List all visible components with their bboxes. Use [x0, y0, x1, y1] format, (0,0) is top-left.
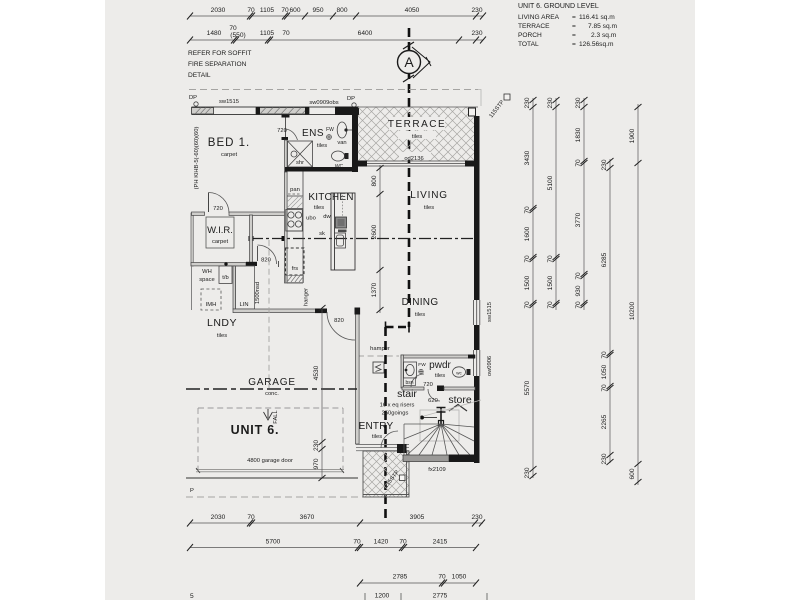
svg-text:stair: stair	[397, 388, 417, 400]
apron dashed line	[186, 496, 363, 498]
section line A (vertical, upper run)	[408, 28, 411, 327]
top wall black corner at ens	[335, 107, 359, 116]
svg-text:store: store	[448, 394, 472, 406]
entry door swing	[381, 431, 398, 448]
store arrow	[449, 405, 467, 412]
corridor wall end bar	[246, 262, 257, 266]
svg-text:70: 70	[438, 574, 446, 581]
svg-text:230: 230	[601, 159, 608, 170]
svg-text:4050: 4050	[405, 7, 420, 14]
store door swing	[428, 389, 440, 401]
svg-text:1200: 1200	[375, 593, 390, 600]
svg-text:DETAIL: DETAIL	[188, 72, 211, 79]
svg-text:10200: 10200	[629, 302, 636, 321]
svg-text:carpet: carpet	[221, 152, 238, 158]
svg-text:2030: 2030	[211, 7, 226, 14]
svg-text:2415: 2415	[433, 539, 448, 546]
garage door jambs	[196, 468, 344, 473]
imh dashed box	[201, 289, 221, 310]
svg-text:1105: 1105	[260, 7, 275, 14]
kitchen west wall / bench column	[285, 172, 288, 283]
svg-text:ENTRY: ENTRY	[359, 421, 394, 432]
svg-text:shr: shr	[296, 160, 304, 166]
store north wall	[444, 387, 475, 390]
svg-text:70: 70	[281, 7, 289, 14]
svg-text:970: 970	[313, 458, 320, 469]
island bench	[331, 193, 355, 270]
svg-text:tiles: tiles	[424, 205, 434, 211]
svg-text:frs: frs	[292, 266, 299, 272]
tub t/b	[219, 266, 232, 284]
dining window sw1515	[474, 300, 480, 325]
svg-text:carpet: carpet	[212, 239, 229, 245]
svg-text:t/b: t/b	[222, 275, 228, 281]
svg-text:230: 230	[471, 514, 482, 521]
svg-text:=: =	[572, 41, 576, 48]
pwdr north wall	[401, 355, 475, 358]
svg-text:4800 garage door: 4800 garage door	[247, 458, 293, 464]
svg-text:5: 5	[190, 593, 194, 600]
svg-text:230: 230	[313, 440, 320, 451]
shower shr	[288, 141, 313, 167]
cooktop burners	[286, 210, 303, 232]
svg-text:230: 230	[471, 30, 482, 37]
svg-text:70: 70	[282, 30, 290, 37]
svg-text:REFER FOR SOFFIT: REFER FOR SOFFIT	[188, 50, 251, 57]
ens door swing	[286, 129, 298, 140]
svg-text:WH: WH	[202, 269, 212, 275]
svg-text:70: 70	[399, 539, 407, 546]
svg-text:ubo: ubo	[306, 216, 316, 222]
svg-text:930: 930	[575, 285, 582, 296]
corridor door 820 swing	[258, 245, 277, 264]
stair south wall black	[449, 455, 476, 463]
right dim column D	[607, 158, 614, 465]
svg-text:PORCH: PORCH	[518, 32, 542, 39]
island dotted line	[342, 195, 344, 216]
svg-text:TOTAL: TOTAL	[518, 41, 539, 48]
svg-text:tiles: tiles	[217, 333, 227, 339]
right dim column A	[530, 97, 537, 479]
section marker circle A	[398, 42, 432, 82]
bench hatch below fridge	[286, 276, 304, 283]
stair handrail dot	[420, 416, 424, 420]
top dimension row 1 labels	[211, 7, 483, 14]
svg-text:pan: pan	[290, 187, 300, 193]
garage slab edge	[186, 477, 358, 479]
stair upper flight outline	[420, 410, 459, 441]
svg-text:FW: FW	[418, 362, 426, 368]
terrace south wall / od2136 door	[358, 161, 478, 166]
svg-text:TERRACE: TERRACE	[388, 119, 446, 130]
top exterior wall	[192, 107, 360, 115]
svg-text:70: 70	[524, 206, 531, 214]
terrace right post	[469, 108, 476, 116]
wir door swing	[209, 193, 230, 214]
svg-text:tiles: tiles	[317, 143, 327, 149]
svg-text:800: 800	[371, 175, 378, 186]
unit 6 ground level area legend	[518, 3, 617, 48]
wall bed1 south (right of door)	[229, 212, 285, 215]
fridge space frs dashed	[286, 248, 305, 275]
step label 115STP top right	[504, 94, 510, 100]
svg-text:1480: 1480	[207, 30, 222, 37]
svg-text:(PH KlHB-5(-60)(60)(60): (PH KlHB-5(-60)(60)(60)	[194, 127, 200, 190]
svg-text:LIVING AREA: LIVING AREA	[518, 14, 560, 21]
svg-text:UNIT 6.: UNIT 6.	[231, 423, 280, 437]
bottom dimension row 3	[357, 580, 479, 587]
DP downpipe left	[189, 95, 198, 106]
terrace floor hatch	[358, 107, 474, 161]
svg-text:250goings: 250goings	[382, 411, 409, 417]
top dimension row 1	[187, 13, 486, 20]
svg-text:DP: DP	[189, 95, 197, 101]
svg-text:70: 70	[229, 25, 237, 32]
lndy south wall	[233, 309, 316, 313]
svg-text:FALL: FALL	[273, 409, 279, 423]
top dimension row 2	[187, 37, 486, 44]
terrace top edge	[359, 106, 478, 108]
garage centreline	[186, 388, 357, 390]
svg-text:P: P	[190, 488, 194, 494]
dishwasher box	[336, 217, 347, 228]
hanger rail dashed	[268, 240, 270, 388]
right dim column C	[581, 97, 588, 310]
svg-text:sw1515: sw1515	[487, 302, 493, 322]
svg-text:pwdr: pwdr	[429, 360, 451, 371]
svg-text:70: 70	[247, 7, 255, 14]
svg-text:70: 70	[547, 301, 554, 309]
svg-text:720: 720	[277, 128, 287, 134]
right dim column E	[635, 104, 642, 485]
svg-text:230: 230	[524, 467, 531, 478]
svg-text:1050: 1050	[601, 364, 608, 379]
datum dash-dot line through kitchen	[251, 238, 474, 240]
svg-text:3670: 3670	[300, 514, 315, 521]
svg-text:70: 70	[247, 514, 255, 521]
top wall masonry pier left	[192, 108, 214, 115]
svg-text:5700: 5700	[266, 539, 281, 546]
door junction dot	[224, 262, 227, 265]
garage door sill	[196, 470, 344, 472]
svg-text:=: =	[572, 32, 576, 39]
svg-text:UNIT 6. GROUND LEVEL: UNIT 6. GROUND LEVEL	[518, 3, 599, 10]
svg-text:600: 600	[629, 468, 636, 479]
lndy south wall black end	[315, 309, 327, 314]
svg-text:=: =	[572, 14, 576, 21]
svg-text:1900: 1900	[629, 128, 636, 143]
svg-text:tiles: tiles	[435, 373, 445, 379]
svg-text:1830: 1830	[575, 127, 582, 142]
svg-text:720: 720	[423, 382, 433, 388]
DP downpipe at ens	[347, 96, 356, 107]
porch step label 115STP	[400, 475, 406, 481]
stair winder treads	[404, 424, 474, 455]
right exterior wall upper (terrace to dining window)	[474, 116, 480, 300]
section line jog horizontal	[386, 326, 410, 329]
pwdr wc	[453, 367, 466, 377]
note: refer for soffit fire separation detail	[188, 50, 251, 79]
svg-text:DP: DP	[347, 96, 355, 102]
svg-text:tiles: tiles	[314, 205, 324, 211]
svg-text:230: 230	[575, 97, 582, 108]
svg-text:6400: 6400	[358, 30, 373, 37]
svg-text:70: 70	[601, 384, 608, 392]
svg-text:820: 820	[334, 318, 344, 324]
lndy door swing	[327, 312, 355, 340]
wir west wall	[191, 213, 193, 266]
svg-text:116.41 sq.m: 116.41 sq.m	[579, 14, 615, 21]
svg-text:70: 70	[575, 272, 582, 280]
garage/entry dividing wall	[356, 309, 360, 444]
svg-text:IMH: IMH	[206, 302, 217, 308]
roof line over (grey dashed)	[189, 89, 478, 91]
svg-text:ow0906: ow0906	[487, 356, 493, 376]
svg-text:(550): (550)	[230, 32, 245, 39]
section line A lower run	[384, 327, 387, 523]
svg-text:sw1515: sw1515	[219, 99, 239, 105]
section jog end ticks	[386, 322, 410, 333]
svg-text:70: 70	[601, 351, 608, 359]
svg-text:TERRACE: TERRACE	[518, 23, 550, 30]
svg-text:5570: 5570	[524, 380, 531, 395]
bottom dimension row 2	[187, 544, 479, 551]
svg-text:230: 230	[601, 453, 608, 464]
svg-text:dw: dw	[323, 214, 331, 220]
svg-text:6285: 6285	[601, 252, 608, 267]
pantry shelf dashes	[288, 193, 301, 195]
pwdr south wall left	[402, 387, 424, 390]
dim 800/2600/1370 vertical at living	[377, 165, 384, 313]
chute box with S	[373, 362, 384, 373]
svg-text:space: space	[199, 277, 214, 283]
svg-text:2600: 2600	[371, 224, 378, 239]
svg-text:950: 950	[312, 7, 323, 14]
pwdr south wall stub black	[437, 386, 444, 392]
pwdr door swing	[411, 374, 424, 387]
svg-text:1500: 1500	[524, 275, 531, 290]
pwdr basin	[404, 362, 417, 378]
svg-text:hanger: hanger	[304, 288, 310, 306]
lndy west wall	[191, 266, 193, 310]
svg-text:230: 230	[471, 7, 482, 14]
svg-text:GARAGE: GARAGE	[248, 377, 296, 388]
svg-text:tiles: tiles	[415, 312, 425, 318]
bench dark bar	[338, 230, 347, 233]
svg-text:70: 70	[575, 301, 582, 309]
wall bed1/ens with 720 door gap	[282, 115, 290, 118]
wall wir/lndy south	[191, 263, 246, 266]
entry/stair black corner	[397, 444, 407, 453]
svg-text:sw0909obs: sw0909obs	[309, 100, 338, 106]
svg-text:1050: 1050	[452, 574, 467, 581]
svg-text:conc.: conc.	[265, 391, 279, 397]
svg-text:fx2109: fx2109	[428, 467, 445, 473]
right dim column B	[553, 97, 560, 310]
svg-text:230: 230	[524, 97, 531, 108]
svg-text:1105: 1105	[260, 30, 275, 37]
svg-text:70: 70	[575, 159, 582, 167]
svg-text:tiles: tiles	[412, 134, 422, 140]
porch outline	[363, 451, 409, 497]
svg-text:2265: 2265	[601, 414, 608, 429]
svg-text:DINING: DINING	[402, 297, 439, 308]
svg-text:1370: 1370	[371, 282, 378, 297]
garage wall black corner	[355, 308, 361, 315]
svg-text:70: 70	[353, 539, 361, 546]
svg-text:70: 70	[547, 255, 554, 263]
stair newel	[437, 407, 446, 424]
powder window ow0906	[474, 350, 480, 376]
svg-text:LIVING: LIVING	[410, 190, 448, 201]
svg-text:sk: sk	[319, 231, 325, 237]
ens south wall	[285, 167, 352, 172]
svg-text:230: 230	[547, 97, 554, 108]
svg-text:van: van	[337, 140, 346, 146]
stair rail diagonal	[424, 400, 481, 416]
svg-text:600: 600	[289, 7, 300, 14]
svg-text:70: 70	[524, 301, 531, 309]
sink sk	[335, 233, 346, 248]
svg-text:LIN: LIN	[239, 302, 248, 308]
svg-text:BED 1.: BED 1.	[208, 137, 250, 149]
ens right wall	[352, 107, 358, 172]
svg-text:16 x eq risers: 16 x eq risers	[380, 403, 415, 409]
porch hatch	[363, 451, 409, 497]
svg-text:2775: 2775	[433, 593, 448, 600]
entry threshold	[356, 445, 409, 451]
pwdr west wall	[401, 355, 404, 388]
wir robe outline	[206, 217, 234, 248]
svg-text:1500: 1500	[547, 275, 554, 290]
svg-text:7.85 sq.m: 7.85 sq.m	[588, 23, 617, 30]
svg-text:2.3 sq.m: 2.3 sq.m	[591, 32, 617, 39]
svg-text:3770: 3770	[575, 212, 582, 227]
svg-text:hamper: hamper	[370, 346, 390, 352]
svg-text:FW: FW	[326, 127, 334, 133]
terrace label patch	[389, 117, 445, 130]
svg-text:5100: 5100	[547, 175, 554, 190]
wir east wall	[250, 215, 253, 263]
svg-text:1420: 1420	[374, 539, 389, 546]
wall bed1 south (left of 720 door)	[192, 212, 205, 215]
svg-text:70: 70	[524, 255, 531, 263]
bottom dimension row 1	[187, 520, 485, 527]
wc ens	[332, 151, 345, 161]
stair south wall hatched	[403, 455, 449, 462]
kitchen bench outline	[287, 172, 303, 284]
svg-text:LNDY: LNDY	[207, 317, 237, 329]
top wall masonry pier mid	[256, 108, 309, 115]
garage door dashed outline	[198, 408, 343, 469]
garage depth dims 4530/230/970	[319, 305, 326, 481]
ubo tower hatch	[287, 196, 303, 208]
bottom dimension row 4 (cut)	[375, 593, 448, 600]
svg-text:W.I.R.: W.I.R.	[207, 225, 233, 236]
svg-text:126.56sq.m: 126.56sq.m	[579, 41, 614, 48]
svg-text:A: A	[404, 54, 414, 70]
linen closet	[236, 266, 255, 309]
svg-text:3905: 3905	[410, 514, 425, 521]
vanity van	[337, 122, 352, 138]
landing line grey dashed	[358, 355, 399, 357]
svg-text:tiles: tiles	[372, 434, 382, 440]
svg-text:2785: 2785	[393, 574, 408, 581]
svg-text:FIRE SEPARATION: FIRE SEPARATION	[188, 61, 247, 68]
svg-text:ENS: ENS	[302, 128, 324, 139]
svg-text:800: 800	[336, 7, 347, 14]
right wall between windows	[474, 325, 480, 350]
svg-text:4530: 4530	[313, 365, 320, 380]
bsn label	[404, 378, 416, 386]
svg-text:3430: 3430	[524, 150, 531, 165]
lndy/lin dividing wall	[233, 266, 236, 309]
svg-text:=: =	[572, 23, 576, 30]
right exterior wall lower	[474, 376, 480, 463]
datum junction squares	[249, 236, 254, 241]
top dimension row 2 labels	[207, 25, 483, 39]
svg-text:720: 720	[213, 206, 223, 212]
svg-text:1600: 1600	[524, 226, 531, 241]
svg-text:1500nsd: 1500nsd	[255, 282, 261, 304]
svg-text:wc: wc	[456, 371, 462, 376]
svg-text:2030: 2030	[211, 514, 226, 521]
